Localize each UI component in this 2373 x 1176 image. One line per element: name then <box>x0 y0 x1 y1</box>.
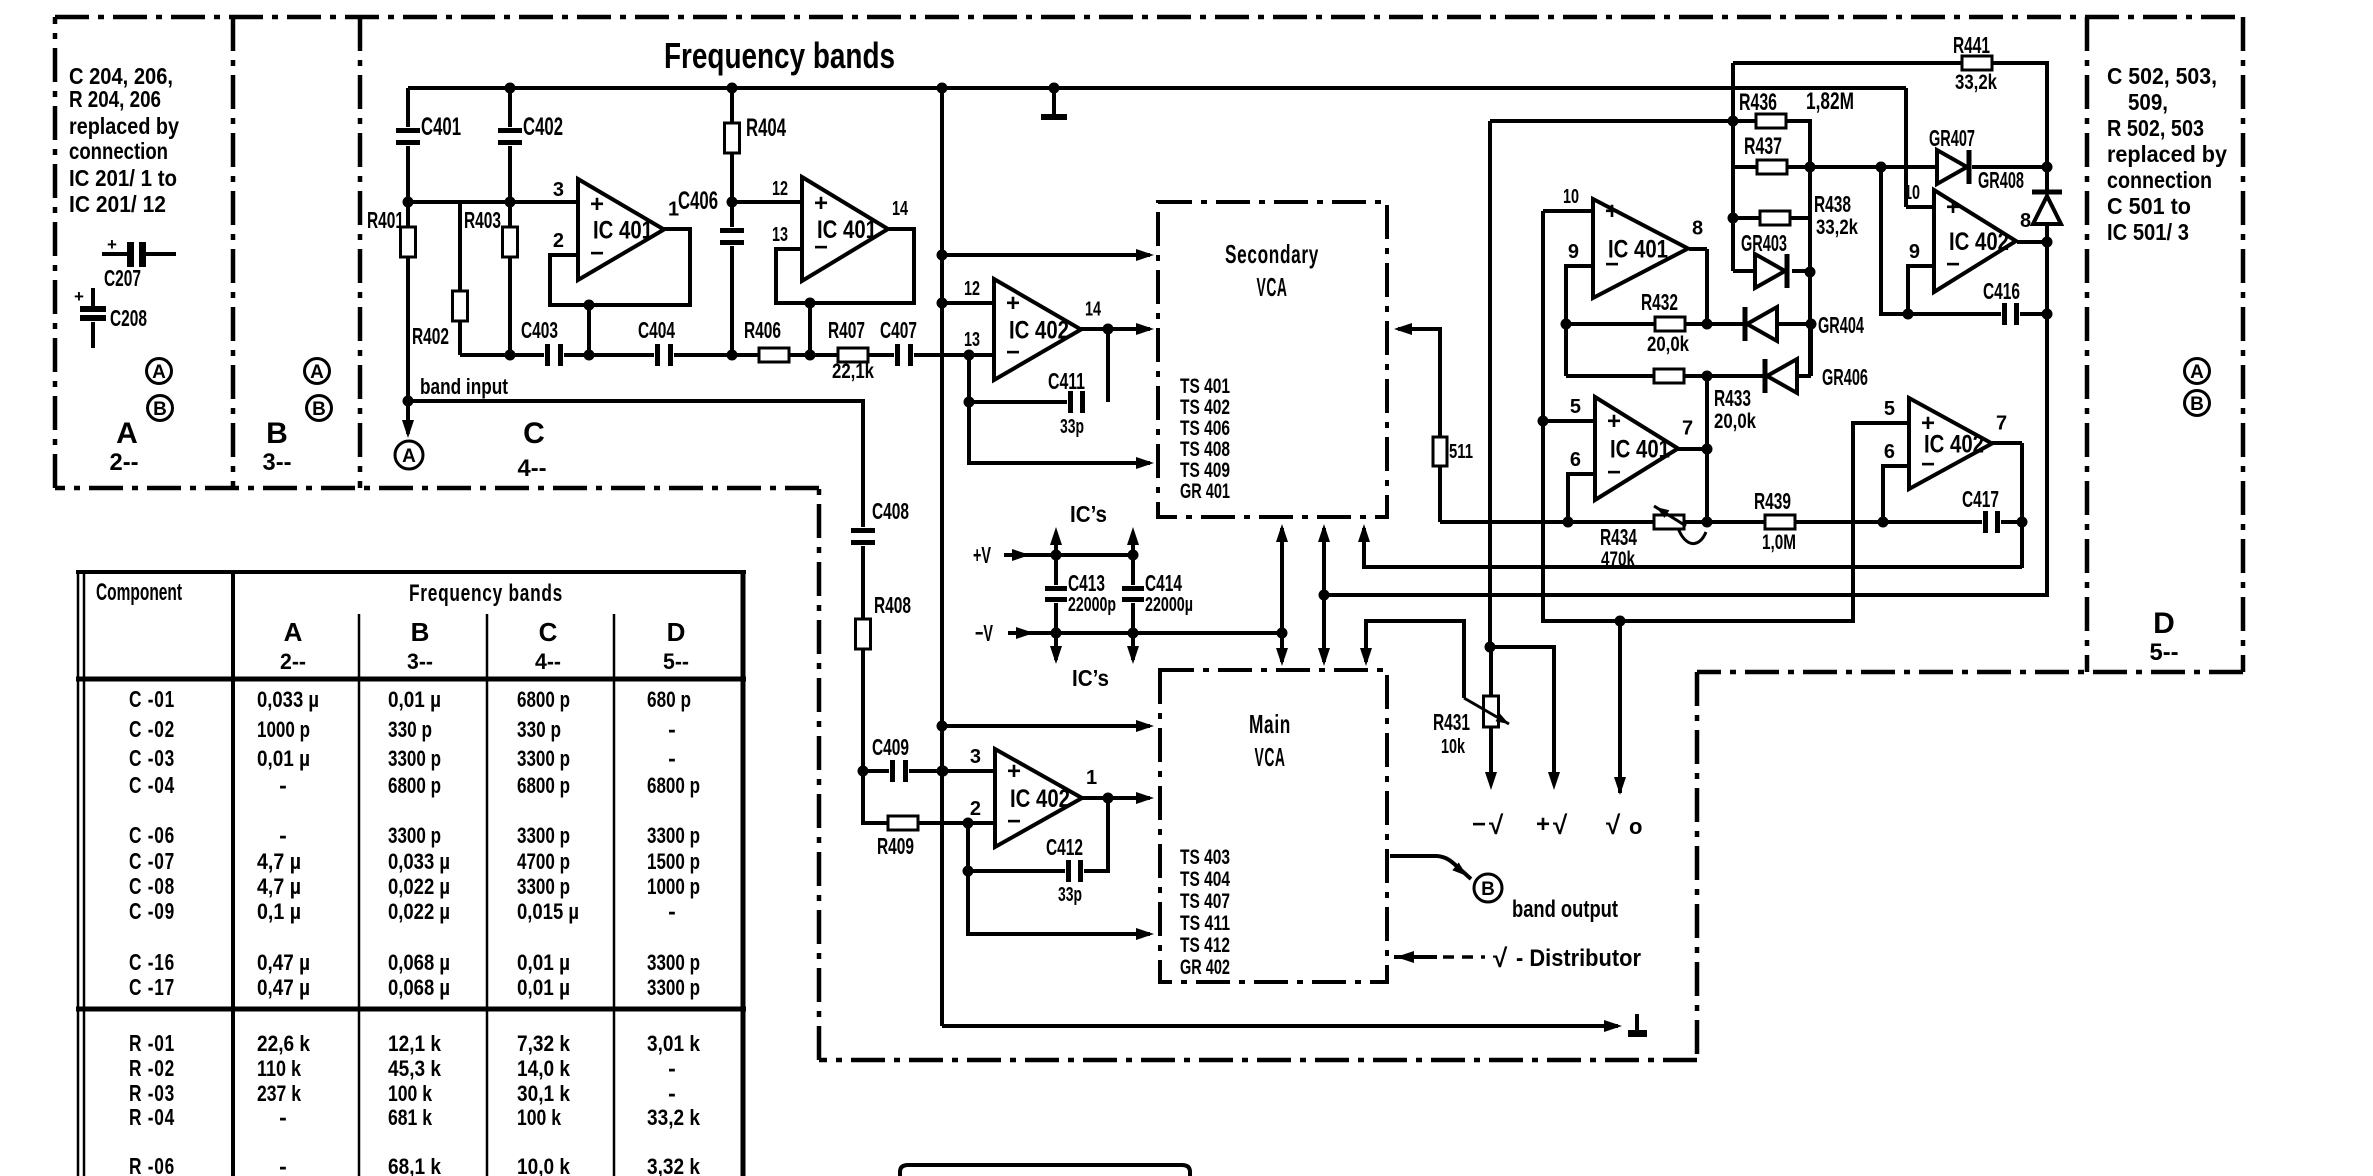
svg-text:-: - <box>279 772 287 798</box>
node B in band B <box>307 396 332 421</box>
wire IC401 U2 pin13 feedback loop <box>776 229 914 303</box>
svg-text:IC’s: IC’s <box>1072 665 1109 691</box>
svg-text:C411: C411 <box>1048 368 1085 394</box>
capacitor C208 <box>91 288 95 308</box>
diode GR407 <box>1937 150 1967 184</box>
resistor R439 <box>1765 515 1795 529</box>
svg-text:R403: R403 <box>464 207 501 233</box>
wire Main VCA top input arrow row y=726 <box>942 724 1150 728</box>
svg-text:680 p: 680 p <box>647 687 691 712</box>
arrow into Secondary VCA input 2 <box>1136 323 1154 335</box>
svg-text:√: √ <box>1606 810 1621 840</box>
frame outer dash-dot border <box>55 15 2243 20</box>
svg-text:TS 411: TS 411 <box>1180 912 1230 935</box>
svg-text:2--: 2-- <box>280 649 306 674</box>
wire GR407 row continuation <box>1972 165 2047 169</box>
wire Main VCA third input row y=934 <box>968 871 1150 934</box>
svg-text:-: - <box>668 1055 676 1081</box>
svg-text:0,47 µ: 0,47 µ <box>257 975 310 1000</box>
svg-text:5: 5 <box>1570 396 1581 418</box>
wire +I branch <box>1490 647 1554 782</box>
node A in band B <box>305 359 330 384</box>
arrow into Main VCA input 1 <box>1136 720 1154 732</box>
wire IC401 U4 output 8 <box>1689 247 1707 251</box>
svg-text:C -07: C -07 <box>129 848 175 874</box>
svg-text:IC 201/ 1 to: IC 201/ 1 to <box>69 165 177 191</box>
svg-text:6800 p: 6800 p <box>517 687 570 712</box>
wire IC402 U7 output stub <box>1992 441 2022 445</box>
svg-text:C -09: C -09 <box>129 898 175 924</box>
capacitor C416 <box>2001 303 2020 325</box>
wire R434 row y=522 <box>1440 520 1654 524</box>
arrow up IC supply right <box>1127 527 1139 545</box>
svg-text:470k: 470k <box>1601 548 1635 571</box>
wire R433 row y=376 <box>1566 374 1654 378</box>
svg-text:C -01: C -01 <box>129 686 175 712</box>
svg-text:3300 p: 3300 p <box>388 823 441 848</box>
node B band output <box>1390 856 1471 879</box>
svg-text:-: - <box>279 1104 287 1130</box>
svg-text:C404: C404 <box>638 317 675 343</box>
arrow into Secondary VCA input 3 <box>1136 457 1154 469</box>
svg-text:B: B <box>1481 879 1495 900</box>
resistor R402 <box>453 291 468 321</box>
capacitor C413 <box>1045 585 1067 603</box>
arrow terminal Io <box>1614 777 1626 795</box>
svg-text:45,3 k: 45,3 k <box>388 1056 442 1081</box>
svg-text:R441: R441 <box>1953 32 1990 58</box>
wire -V rail y=633 <box>1008 631 1282 635</box>
svg-text:GR406: GR406 <box>1822 364 1868 390</box>
wire R441 top row y=63 <box>1733 61 1962 65</box>
svg-text:C414: C414 <box>1145 570 1182 596</box>
op-amp U2 IC401 <box>802 177 888 281</box>
wire +V rail y=555 <box>1004 553 1133 557</box>
svg-text:R 502, 503: R 502, 503 <box>2107 115 2204 141</box>
svg-text:+: + <box>1536 811 1550 838</box>
svg-text:2: 2 <box>970 798 981 820</box>
arrow terminal -I <box>1485 772 1497 790</box>
svg-text:6800 p: 6800 p <box>647 773 700 798</box>
svg-text:C412: C412 <box>1046 834 1083 860</box>
block Main VCA <box>1160 670 1387 982</box>
wire C411 feedback loop <box>1106 329 1110 402</box>
svg-text:30,1 k: 30,1 k <box>517 1081 571 1106</box>
svg-text:IC 501/ 3: IC 501/ 3 <box>2107 219 2189 245</box>
resistor R407 <box>838 348 868 362</box>
resistor R433 <box>1654 369 1684 383</box>
svg-text:6800 p: 6800 p <box>517 773 570 798</box>
capacitor C401 <box>396 127 420 146</box>
svg-text:A: A <box>402 446 416 467</box>
svg-text:0,01 µ: 0,01 µ <box>517 950 570 975</box>
svg-text:33,2 k: 33,2 k <box>647 1105 701 1130</box>
wire vertical x=942 main bus <box>940 88 944 1026</box>
svg-text:R433: R433 <box>1714 385 1751 411</box>
svg-text:A: A <box>152 362 166 383</box>
svg-text:A: A <box>2190 362 2204 383</box>
svg-text:12: 12 <box>964 278 980 300</box>
svg-text:GR 402: GR 402 <box>1180 956 1230 979</box>
svg-text:7: 7 <box>1996 413 2007 435</box>
svg-text:R -01: R -01 <box>129 1030 175 1056</box>
svg-text:10: 10 <box>1904 182 1920 204</box>
wire R432 row y=324 <box>1566 322 1655 326</box>
wire output net to -I/+I terminals x=1490 <box>1488 121 1492 647</box>
node A in band A <box>147 359 172 384</box>
arrow terminal +I <box>1548 772 1560 790</box>
svg-text:band output: band output <box>1512 896 1618 923</box>
arrow down control x=1324 <box>1318 648 1330 666</box>
svg-text:8: 8 <box>1692 218 1703 240</box>
arrow into Main VCA input 2 <box>1136 792 1154 804</box>
frame divider band B/C <box>358 17 363 488</box>
svg-text:+V: +V <box>973 542 991 568</box>
wire R436 to R437 link x=1810 <box>1787 121 1810 376</box>
svg-text:Frequency bands: Frequency bands <box>664 35 895 76</box>
svg-text:6800 p: 6800 p <box>388 773 441 798</box>
svg-text:10k: 10k <box>1441 736 1466 758</box>
svg-text:Frequency bands: Frequency bands <box>409 580 563 607</box>
resistor R441 <box>1962 56 1992 70</box>
svg-text:0,068 µ: 0,068 µ <box>388 950 450 975</box>
svg-text:C401: C401 <box>421 113 461 141</box>
svg-text:C406: C406 <box>678 187 718 215</box>
svg-text:1: 1 <box>1086 767 1097 789</box>
svg-text:22,1k: 22,1k <box>832 360 874 383</box>
wire IC402 U6 pin9 stub <box>1908 266 1934 314</box>
svg-text:TS 403: TS 403 <box>1180 846 1230 869</box>
svg-text:√: √ <box>1553 810 1568 840</box>
wire band input row y=401 <box>408 401 863 528</box>
svg-text:TS 406: TS 406 <box>1180 417 1230 440</box>
capacitor C411 <box>1067 391 1086 413</box>
capacitor C414 <box>1122 585 1144 603</box>
diode GR403 <box>1755 254 1785 288</box>
svg-text:3300 p: 3300 p <box>647 975 700 1000</box>
distributor terminal <box>1396 951 1414 963</box>
wire IC402 U6 pin10 stub <box>1906 205 1934 209</box>
wire R439 row y=522 to C417 to IC402 U7 output <box>1707 520 1765 524</box>
svg-text:13: 13 <box>772 224 788 246</box>
node A in band D <box>2185 359 2210 384</box>
svg-text:+: + <box>107 235 117 254</box>
wire Secondary VCA right input via resistor 511 <box>1398 329 1440 437</box>
wire IC402 U8 output row y=798 <box>1082 796 1150 800</box>
resistor R406 <box>759 348 789 362</box>
svg-text:0,01 µ: 0,01 µ <box>517 975 570 1000</box>
capacitor C403 <box>544 344 564 366</box>
block Secondary VCA <box>1158 202 1387 517</box>
resistor R432 <box>1655 317 1685 331</box>
wire VCA control line x=1282 <box>1280 528 1284 662</box>
svg-text:-: - <box>668 745 676 771</box>
wire R402 branch <box>458 202 462 291</box>
wire top supply rail y=88 from C401 to IC402 pin10 corner <box>408 86 1906 90</box>
svg-text:o: o <box>1629 814 1642 839</box>
svg-text:0,033 µ: 0,033 µ <box>257 687 319 712</box>
diode GR408 <box>2032 190 2062 195</box>
wire IC401 U1 pin2 feedback loop <box>550 229 690 305</box>
svg-text:509,: 509, <box>2128 89 2168 115</box>
wire IC402 U6 output 8 <box>2017 240 2047 244</box>
svg-text:22,6 k: 22,6 k <box>257 1031 311 1056</box>
arrow into Secondary VCA right input <box>1394 323 1412 335</box>
svg-text:C: C <box>523 417 545 450</box>
wire C416 row y=314 <box>1908 312 2002 316</box>
svg-text:IC 401: IC 401 <box>817 216 877 244</box>
svg-text:4--: 4-- <box>535 649 561 674</box>
svg-text:C -02: C -02 <box>129 716 175 742</box>
svg-text:5--: 5-- <box>663 649 689 674</box>
svg-text:1,0M: 1,0M <box>1762 531 1796 554</box>
svg-text:3--: 3-- <box>407 649 433 674</box>
svg-text:band input: band input <box>420 374 509 399</box>
svg-text:−V: −V <box>975 620 993 646</box>
node B in band A <box>148 396 173 421</box>
arrow into Main VCA input 3 <box>1136 928 1154 940</box>
svg-text:C413: C413 <box>1068 570 1105 596</box>
wire -I branch through R431 <box>1489 647 1493 696</box>
svg-text:TS 401: TS 401 <box>1180 375 1230 398</box>
svg-text:0,47 µ: 0,47 µ <box>257 950 310 975</box>
potentiometer R431 <box>1484 696 1499 727</box>
svg-text:R -03: R -03 <box>129 1080 175 1106</box>
wire R438 row y=218 <box>1733 216 1760 220</box>
svg-text:3: 3 <box>553 179 564 201</box>
wire IC402 U3 pin12 row <box>942 301 994 305</box>
svg-text:R437: R437 <box>1744 133 1782 160</box>
wire Secondary VCA input arrow row y=255 <box>942 253 1150 257</box>
capacitor C409 <box>889 760 909 782</box>
resistor R409 <box>888 816 918 830</box>
frame divider band D left <box>2085 17 2090 672</box>
svg-text:3,32 k: 3,32 k <box>647 1154 701 1176</box>
svg-text:0,01 µ: 0,01 µ <box>257 746 310 771</box>
svg-text:C -08: C -08 <box>129 873 175 899</box>
svg-text:+: + <box>590 191 604 218</box>
svg-text:+: + <box>1946 194 1960 221</box>
svg-text:VCA: VCA <box>1257 272 1288 302</box>
svg-text:7: 7 <box>1682 418 1693 440</box>
svg-text:4--: 4-- <box>518 455 547 482</box>
svg-text:2: 2 <box>553 230 564 252</box>
svg-text:GR408: GR408 <box>1978 167 2024 193</box>
svg-text:C -16: C -16 <box>129 949 175 975</box>
arrow up control x=1324 <box>1318 524 1330 542</box>
svg-text:C417: C417 <box>1962 486 1999 512</box>
svg-text:C407: C407 <box>880 317 917 343</box>
svg-text:replaced by: replaced by <box>2107 141 2227 167</box>
capacitor C407 <box>894 344 914 366</box>
svg-text:22000p: 22000p <box>1068 594 1116 616</box>
svg-text:R438: R438 <box>1814 191 1851 217</box>
svg-text:IC 402: IC 402 <box>1949 228 2009 256</box>
ground symbol bottom right <box>1604 1020 1622 1032</box>
diode GR406 <box>1767 359 1797 393</box>
capacitor C402 <box>498 127 522 146</box>
svg-text:C409: C409 <box>872 734 909 760</box>
frame bottom partial box <box>900 1165 1190 1176</box>
capacitor C406 <box>720 227 744 246</box>
svg-text:R408: R408 <box>874 592 911 618</box>
wire filter row y=355 C403/C404 <box>460 353 545 357</box>
svg-text:−: − <box>1472 811 1486 838</box>
svg-text:3300 p: 3300 p <box>647 823 700 848</box>
svg-text:33,2k: 33,2k <box>1955 71 1997 94</box>
svg-text:3: 3 <box>970 746 981 768</box>
svg-text:0,022 µ: 0,022 µ <box>388 874 450 899</box>
svg-text:-: - <box>279 822 287 848</box>
svg-text:330 p: 330 p <box>517 717 561 742</box>
svg-text:Main: Main <box>1249 709 1291 739</box>
svg-text:IC 401: IC 401 <box>593 217 653 245</box>
svg-text:C207: C207 <box>104 265 141 291</box>
svg-text:5: 5 <box>1884 398 1895 420</box>
svg-text:A: A <box>310 362 324 383</box>
arrow band input node A <box>402 420 414 438</box>
svg-text:R406: R406 <box>744 317 781 343</box>
op-amp U4 IC401 <box>1593 199 1688 298</box>
svg-text:237 k: 237 k <box>257 1081 302 1106</box>
table component values <box>76 570 746 574</box>
svg-text:10: 10 <box>1563 186 1579 208</box>
svg-text:C402: C402 <box>523 113 563 141</box>
resistor R404 <box>725 123 740 153</box>
wire R409 row y=823 <box>863 771 888 823</box>
svg-text:0,033 µ: 0,033 µ <box>388 849 450 874</box>
svg-text:-: - <box>279 1153 287 1176</box>
svg-text:8: 8 <box>2020 210 2031 232</box>
svg-text:Component: Component <box>96 579 182 606</box>
svg-text:connection: connection <box>2107 167 2212 193</box>
svg-text:TS 408: TS 408 <box>1180 438 1230 461</box>
svg-text:2--: 2-- <box>110 449 139 476</box>
svg-text:R436: R436 <box>1739 89 1777 116</box>
wire to Secondary VCA lower input arrow <box>969 402 1150 463</box>
svg-text:IC 402: IC 402 <box>1009 317 1069 345</box>
svg-text:√: √ <box>1493 943 1508 973</box>
arrow up IC supply left <box>1050 527 1062 545</box>
svg-text:3,01 k: 3,01 k <box>647 1031 701 1056</box>
resistor R403 <box>503 227 518 257</box>
svg-text:IC 401: IC 401 <box>1610 436 1670 464</box>
svg-text:VCA: VCA <box>1255 742 1286 772</box>
svg-text:C: C <box>539 617 558 647</box>
svg-text:3300 p: 3300 p <box>517 746 570 771</box>
svg-text:R402: R402 <box>412 323 449 349</box>
svg-text:20,0k: 20,0k <box>1714 410 1756 433</box>
wire C416 branch x=1882 <box>1881 167 1908 314</box>
resistor R438 <box>1760 211 1790 225</box>
svg-text:1500 p: 1500 p <box>647 849 700 874</box>
svg-text:GR404: GR404 <box>1818 312 1864 338</box>
svg-text:R 204, 206: R 204, 206 <box>69 86 161 112</box>
diode GR404 <box>1747 307 1777 341</box>
node input row y=202 R401/R403 to IC401 pin3 <box>408 200 578 204</box>
frame divider band A/B <box>231 17 236 488</box>
svg-text:replaced by: replaced by <box>69 113 179 139</box>
svg-text:B: B <box>266 417 288 450</box>
svg-text:IC’s: IC’s <box>1070 501 1107 527</box>
resistor R401 <box>401 227 416 257</box>
svg-text:-: - <box>668 1080 676 1106</box>
svg-text:Secondary: Secondary <box>1225 239 1319 269</box>
svg-text:0,015 µ: 0,015 µ <box>517 899 579 924</box>
svg-text:511: 511 <box>1449 441 1473 463</box>
arrow down control x=1282 <box>1276 648 1288 666</box>
svg-text:GR403: GR403 <box>1741 230 1787 256</box>
wire Io branch x=1620 <box>1618 621 1622 793</box>
svg-text:+: + <box>1006 290 1020 317</box>
op-amp U5 IC401 <box>1595 397 1678 500</box>
wire IC401 U5 pin5 stub <box>1543 419 1595 423</box>
node B in band D <box>2185 391 2210 416</box>
svg-text:TS 404: TS 404 <box>1180 868 1230 891</box>
svg-text:0,01 µ: 0,01 µ <box>388 687 441 712</box>
svg-text:33p: 33p <box>1060 416 1084 438</box>
resistor R436 <box>1756 114 1786 128</box>
svg-text:12: 12 <box>772 178 788 200</box>
svg-text:3--: 3-- <box>263 449 292 476</box>
capacitor C412 <box>1065 860 1084 882</box>
svg-text:IC 402: IC 402 <box>1924 431 1984 459</box>
arrow up control x=1282 <box>1276 524 1288 542</box>
svg-text:68,1 k: 68,1 k <box>388 1154 442 1176</box>
svg-text:9: 9 <box>1909 241 1920 263</box>
capacitor C417 <box>1982 511 2001 533</box>
svg-text:- Distributor: - Distributor <box>1516 945 1641 972</box>
svg-text:+: + <box>1007 758 1021 785</box>
wire IC402 U3 output row y=329 <box>1081 327 1150 331</box>
svg-text:3300 p: 3300 p <box>517 823 570 848</box>
arrow down IC supply right <box>1127 646 1139 664</box>
arrow down IC supply left <box>1050 646 1062 664</box>
wire ground return row y=1026 <box>942 1024 1618 1028</box>
svg-text:0,022 µ: 0,022 µ <box>388 899 450 924</box>
capacitor C207 <box>102 252 128 256</box>
svg-text:9: 9 <box>1568 241 1579 263</box>
svg-text:C408: C408 <box>872 498 909 524</box>
svg-text:C403: C403 <box>521 317 558 343</box>
op-amp U3 IC402 <box>994 279 1081 380</box>
svg-text:R432: R432 <box>1641 289 1678 315</box>
wire rail y=121 R436 row <box>1490 119 1756 123</box>
svg-text:14: 14 <box>1085 299 1102 321</box>
wire C401 branch x=408 rail to node A row <box>406 88 410 128</box>
svg-text:R409: R409 <box>877 833 914 859</box>
capacitor C404 <box>654 344 674 366</box>
svg-text:C416: C416 <box>1983 278 2020 304</box>
svg-text:IC 201/ 12: IC 201/ 12 <box>69 191 166 217</box>
svg-text:R434: R434 <box>1600 524 1637 550</box>
svg-text:R401: R401 <box>367 207 404 233</box>
svg-text:connection: connection <box>69 138 168 164</box>
svg-text:D: D <box>667 617 686 647</box>
svg-text:22000µ: 22000µ <box>1145 594 1193 616</box>
svg-text:0,1 µ: 0,1 µ <box>257 899 301 924</box>
svg-text:110 k: 110 k <box>257 1056 302 1081</box>
svg-text:C -03: C -03 <box>129 745 175 771</box>
wire IC power feed x=1056 <box>1054 534 1058 660</box>
wire C402/R403 branch x=510 <box>508 88 512 128</box>
wire R437 row y=167 <box>1733 165 1757 169</box>
svg-text:3300 p: 3300 p <box>517 874 570 899</box>
svg-text:A: A <box>116 417 138 450</box>
svg-text:R -02: R -02 <box>129 1055 175 1081</box>
wire IC401 U5 pin6 loop <box>1568 474 1595 522</box>
svg-text:C 501 to: C 501 to <box>2107 193 2191 219</box>
